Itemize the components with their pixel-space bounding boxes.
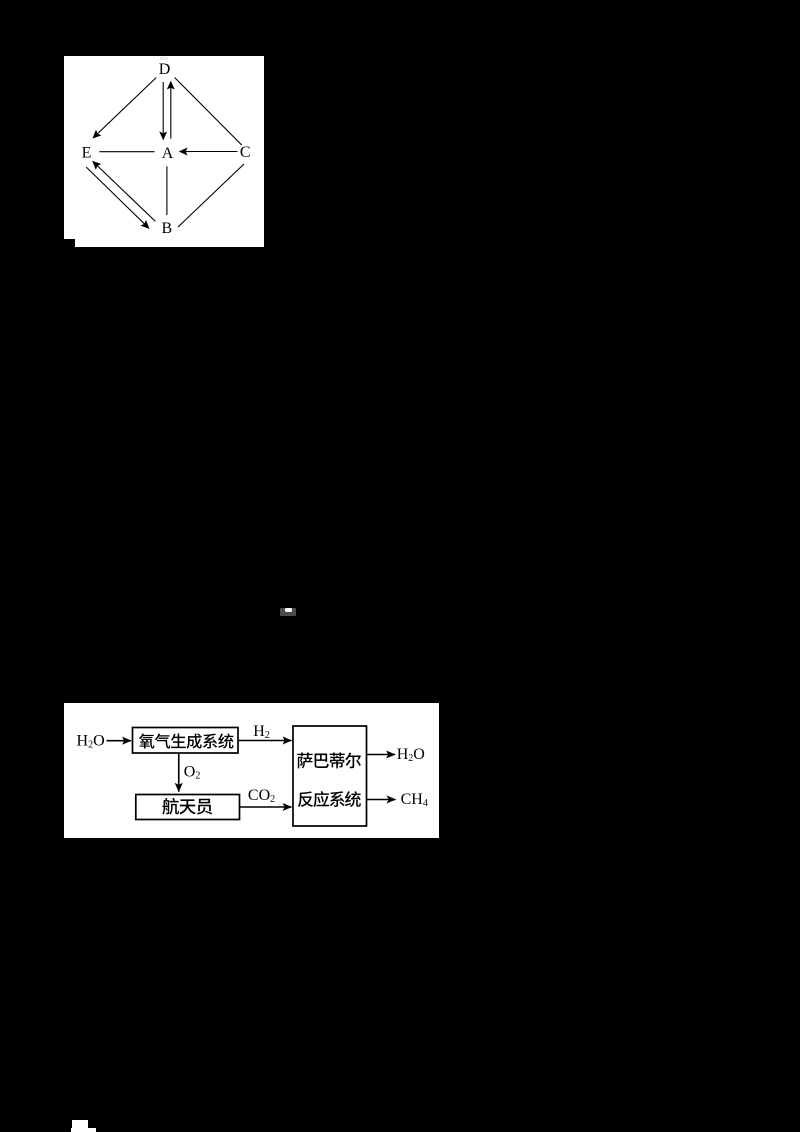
wire A to B: [166, 166, 168, 215]
label: astronaut text: [162, 798, 212, 815]
arrow oxygen system to astronaut (O2): [178, 754, 180, 792]
svg-text:B: B: [161, 220, 172, 237]
arrow C to A: [180, 151, 238, 153]
arrow A to D: [170, 82, 172, 139]
arrow E to B: [86, 167, 149, 228]
label: reaction system text line 2: [298, 791, 361, 807]
arrow D to E: [93, 78, 156, 139]
clipped white block bottom-left (upper part): [72, 1120, 88, 1128]
arrow D to A: [162, 82, 164, 140]
small gray artifact mark: [280, 608, 296, 616]
svg-text:C: C: [240, 144, 251, 161]
wire B to C: [178, 164, 244, 227]
clipped white block bottom-left (lower strip): [71, 1128, 96, 1132]
svg-text:A: A: [162, 145, 174, 162]
faint gray patch on top edge: [160, 57, 168, 60]
label: oxygen generation system text: [139, 733, 234, 748]
arrow Sabatier to CH4: [367, 799, 396, 801]
label: Sabatier text line 1: [297, 753, 361, 769]
box: oxygen generation system: [133, 728, 239, 754]
wire D to C: [175, 78, 242, 146]
box: Sabatier reaction system: [293, 726, 367, 826]
corner notch: [64, 239, 75, 247]
diagram panel 1: A-B-C-D-E transformation graph: [64, 56, 264, 247]
arrow astronaut to Sabatier (CO2): [240, 806, 292, 808]
svg-text:E: E: [82, 145, 92, 162]
arrow B to E: [93, 161, 156, 221]
wire E to A: [99, 151, 154, 153]
diagram panel 2: Sabatier life-support flowchart: [64, 703, 439, 838]
box: astronaut: [136, 795, 240, 820]
arrow H2O to oxygen system: [107, 740, 132, 742]
arrow Sabatier to H2O: [367, 754, 395, 756]
svg-text:D: D: [159, 61, 171, 78]
white dash inside artifact: [285, 608, 293, 611]
arrow oxygen system to Sabatier (H2): [239, 740, 292, 742]
